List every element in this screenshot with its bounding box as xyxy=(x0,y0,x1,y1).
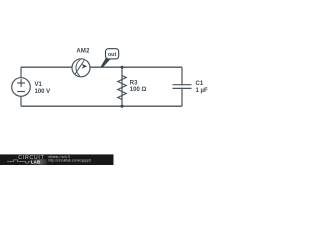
footer: logo waveform xyxy=(7,160,30,163)
svg-text:C1: C1 xyxy=(196,81,204,87)
svg-text:100 Ω: 100 Ω xyxy=(130,87,147,93)
svg-text:LAB: LAB xyxy=(31,159,40,164)
resistor R3 xyxy=(118,76,126,100)
node out: flag tail xyxy=(101,58,110,67)
svg-text:AM2: AM2 xyxy=(76,49,90,55)
wire: left vertical from V1 to bottom wire xyxy=(20,87,22,106)
junction: node dot at R3 bottom xyxy=(121,105,124,108)
label V1 value xyxy=(35,82,51,95)
voltage source V1 xyxy=(12,78,31,97)
wire: right vertical through C1 xyxy=(181,67,183,106)
footer: logo LAB badge xyxy=(30,159,47,164)
svg-text:100 V: 100 V xyxy=(35,89,51,95)
wire: R3 branch vertical xyxy=(121,67,123,106)
label C1 value xyxy=(196,81,208,94)
label R3 value xyxy=(130,81,147,94)
wire: top horizontal net from V1 to C1 xyxy=(21,66,182,68)
node out: flag bubble xyxy=(106,49,119,59)
svg-text:1 µF: 1 µF xyxy=(196,88,208,94)
svg-text:out: out xyxy=(108,52,117,58)
ammeter AM2 xyxy=(72,59,90,77)
junction: node dot at R3 top xyxy=(121,66,124,69)
footer: black bar xyxy=(0,154,114,165)
svg-text:V1: V1 xyxy=(35,82,43,88)
wire: left vertical from top wire to V1 xyxy=(20,67,22,87)
capacitor C1 xyxy=(171,85,193,89)
svg-text:R3: R3 xyxy=(130,81,138,87)
svg-text:http://circuitlab.com/cqppp3: http://circuitlab.com/cqppp3 xyxy=(48,158,91,162)
wire: bottom horizontal net xyxy=(21,105,182,107)
